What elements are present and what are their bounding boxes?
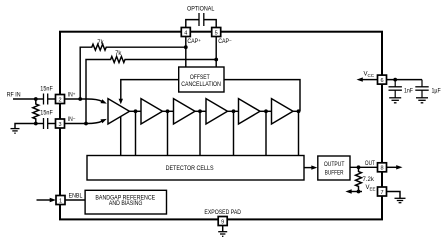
IC outer box U1 [60,32,382,220]
wire node to C1 [36,98,44,100]
wire pin 6 to bypass caps [387,79,423,81]
pin 7 GND [378,187,387,196]
svg-text:6: 6 [380,78,383,84]
wire chain A1-A2 [130,110,142,112]
amplifier A4 [206,99,228,124]
wire chain A5-A6 [260,110,272,112]
node junction OUT/7.2k [357,165,361,169]
svg-text:OUT: OUT [365,161,375,167]
node tap5 dot [264,109,268,113]
wire ENBL external arrow lead [37,199,52,201]
wire chain A4-A5 [228,110,239,112]
wire CAP- to offset box [215,37,217,68]
arrowhead ENBL (points right) [50,198,56,202]
wire detector to output buffer [304,167,312,169]
svg-text:CAP+: CAP+ [187,38,201,45]
wire VEE rail [351,191,362,193]
node junction CAP+/7k [184,45,188,49]
node junction RFIN-R [34,97,38,101]
node junction R3/VEE [357,190,361,194]
arrowhead VEE (points left) [345,189,351,193]
resistor R3 7.2k [356,167,362,191]
svg-text:OPTIONAL: OPTIONAL [187,7,215,13]
ground GND4 [416,98,428,103]
node junction C4 [393,78,397,82]
wire output buffer to pin 8 [350,166,378,168]
pin 8 OUT [378,163,387,172]
node tap4 dot [232,109,236,113]
svg-text:7: 7 [380,190,383,196]
svg-text:VCC: VCC [364,72,375,78]
svg-text:OFFSET: OFFSET [190,75,210,81]
wire offset cancellation output to A1 [121,80,179,100]
arrowhead into A1 bottom input [101,119,107,123]
pin 4 CAP+ [181,28,190,37]
pin 1 ENBL [56,196,65,205]
wire offset cancellation input from chain output [224,80,300,112]
node junction IN+/7k [78,97,82,101]
wire pin 4 to optional cap [186,20,199,28]
amplifier A5 [239,99,261,124]
node tap1 dot [134,109,138,113]
amplifier A6 [272,99,294,124]
wire pin 9 to ground [222,226,224,232]
wire tap6 to detector [298,111,300,155]
capacitor C5 1uF [415,80,428,98]
svg-text:7k: 7k [97,40,104,46]
wire OUT external [387,166,398,168]
wire to ground (bottom-left) [15,124,36,129]
svg-text:5: 5 [215,30,218,36]
pin 3 IN- [56,119,65,128]
pin 2 IN+ [56,95,65,104]
wire chain A3-A4 [195,110,206,112]
wire IN+ to amp A1 (curved) [65,99,102,101]
detector cells box [87,156,304,181]
svg-text:VEE: VEE [366,185,376,191]
wire node to C2 [36,123,44,125]
wire tap2 to detector [167,111,169,155]
svg-text:2: 2 [58,97,61,103]
node tap2 dot [166,109,170,113]
node junction IN-/7k [84,122,88,126]
svg-text:OUTPUT: OUTPUT [324,162,345,168]
ground GND2 [395,198,406,202]
svg-text:8: 8 [380,166,383,172]
svg-text:DETECTOR CELLS: DETECTOR CELLS [166,166,214,172]
pin 5 CAP- [212,28,221,37]
node junction R-bottom [34,122,38,126]
svg-text:7.2k: 7.2k [363,177,375,183]
amplifier A2 [141,99,163,124]
bandgap reference box [85,190,166,214]
capacitor C3 optional (between pins 4 and 5) [199,13,204,26]
arrowhead into A1 top input [101,99,107,103]
resistor R1 7k (top feedback) [80,44,186,99]
ground GND5 [218,232,227,237]
wire IN- to amp A1 (curved) [65,121,102,123]
ground GND1 [11,129,20,134]
svg-text:CAP−: CAP− [218,38,232,45]
wire VCC arrow lead [362,79,378,81]
wire tap A1 to detector [120,117,122,156]
wire pin 1 to bandgap box [65,199,85,201]
arrowhead into output buffer [311,165,317,169]
pin 9 exposed pad [218,217,227,226]
capacitor C4 1nF [389,80,402,98]
arrowhead offset into A1 [119,99,123,105]
wire RF IN lead [13,98,36,100]
ground GND3 [389,98,401,103]
wire CAP+ to offset box [185,37,187,68]
wire optional cap to pin 5 [204,20,216,28]
svg-text:IN+: IN+ [68,91,76,98]
arrowhead OUT external [396,165,402,169]
wire C2 to pin 3 [48,123,56,125]
wire C1 to pin 2 [48,98,56,100]
svg-text:CANCELLATION: CANCELLATION [181,82,221,88]
wire pin 7 to ground [387,192,401,199]
wire tap1 to detector [135,111,137,155]
svg-text:3: 3 [58,122,61,128]
svg-text:AND BIASING: AND BIASING [109,201,143,207]
node junction CAP-/7k [214,58,218,62]
arrowhead VCC (points left) [357,77,363,81]
svg-text:15nF: 15nF [40,110,53,116]
svg-text:1nF: 1nF [404,88,413,94]
svg-text:1µF: 1µF [432,88,441,94]
svg-text:EXPOSED PAD: EXPOSED PAD [204,210,241,216]
svg-text:1: 1 [59,198,62,204]
wire tap4 to detector [233,111,235,155]
svg-text:7k: 7k [115,51,122,57]
svg-text:4: 4 [184,30,187,36]
svg-text:15nF: 15nF [40,87,53,93]
pin 6 VCC [378,75,387,84]
svg-text:IN−: IN− [68,116,76,123]
wire chain A2-A3 [163,110,174,112]
offset cancellation box [179,67,224,92]
wire tap3 to detector [199,111,201,155]
wire tap5 to detector [265,111,267,155]
node tap3 dot [198,109,202,113]
amplifier A1 [108,99,130,124]
svg-text:RF IN: RF IN [7,93,21,99]
capacitor C1 15nF (top input) [44,94,48,105]
resistor input termination (vertical) [33,99,39,124]
amplifier A3 [174,99,196,124]
output buffer box [318,156,350,180]
svg-text:ENBL: ENBL [69,193,83,199]
svg-text:9: 9 [221,219,224,225]
resistor R2 7k (bottom feedback) [86,57,216,124]
capacitor C2 15nF (bottom input) [44,118,48,129]
wire chain A6-out [293,110,299,112]
svg-text:BUFFER: BUFFER [325,170,344,176]
node tap6 dot (chain output) [297,109,301,113]
